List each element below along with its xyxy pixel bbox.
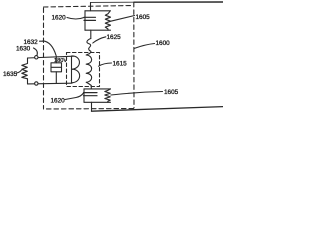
top RC loop top wire <box>85 10 110 12</box>
leader 1625 <box>93 37 106 43</box>
squiggle wire 1625 <box>87 39 91 54</box>
label 1632 <box>24 39 39 46</box>
bottom RC loop top wire <box>84 88 111 90</box>
label 1615 <box>113 61 128 68</box>
leader 1605 bottom <box>111 92 163 96</box>
label 1605 (bottom) <box>164 89 179 96</box>
top RC loop bottom wire <box>85 29 111 31</box>
MOV top lead <box>55 56 57 63</box>
leader 1632 arc <box>40 41 57 56</box>
dashed box 1600 <box>44 2 135 109</box>
resistor 1605 (bottom) <box>105 89 111 102</box>
leader 1615 <box>99 63 112 66</box>
label 1605 (top) <box>136 14 151 21</box>
MOV inner line <box>51 66 62 68</box>
transformer 1615 secondary winding <box>86 54 91 89</box>
label 1620 (top) <box>52 15 67 22</box>
leader 1605 top <box>111 16 135 22</box>
label 1600 <box>156 40 171 47</box>
svg-text:1630: 1630 <box>16 46 31 53</box>
leader 1630 <box>34 48 38 55</box>
capacitor 1620 (top) <box>84 17 96 20</box>
svg-text:1615: 1615 <box>113 61 128 68</box>
label 1635 <box>3 71 18 78</box>
left top wire <box>28 56 74 58</box>
bottom bus wire <box>92 107 224 112</box>
leader 1620 top <box>67 18 84 20</box>
wire: bottom RC to bottom bus <box>91 102 93 111</box>
MOV bottom lead <box>55 72 57 84</box>
svg-text:1605: 1605 <box>164 89 179 96</box>
bottom RC loop bottom wire <box>84 101 111 103</box>
180V text <box>54 58 67 64</box>
bottom RC left vertical <box>83 89 85 102</box>
svg-text:1620: 1620 <box>51 97 66 104</box>
resistor 1605 (top) <box>105 11 110 30</box>
top bus wire <box>91 1 135 3</box>
transformer 1615 primary winding <box>72 56 80 83</box>
label 1620 (bottom) <box>51 97 66 104</box>
svg-text:1605: 1605 <box>136 14 151 21</box>
left vertical + resistor 1635 <box>22 58 28 84</box>
node circle bottom <box>35 82 38 85</box>
wire: top bus to top RC <box>90 3 92 11</box>
label 1630 <box>16 46 31 53</box>
svg-text:1620: 1620 <box>52 15 67 22</box>
leader 1620 bottom <box>65 93 84 100</box>
capacitor 1620 (bottom) <box>84 93 98 96</box>
inner dashed box (transformer) <box>67 53 100 87</box>
leader 1600 <box>134 44 155 49</box>
svg-text:1600: 1600 <box>156 40 171 47</box>
leader 1635 <box>17 70 22 73</box>
label 1625 <box>107 34 122 41</box>
svg-text:1635: 1635 <box>3 71 18 78</box>
node circle top <box>35 56 38 59</box>
MOV box <box>51 63 62 72</box>
wire: top RC to squiggle <box>90 30 92 38</box>
left bottom wire <box>28 82 73 85</box>
top RC left vertical wire <box>84 11 86 30</box>
svg-text:1625: 1625 <box>107 34 122 41</box>
